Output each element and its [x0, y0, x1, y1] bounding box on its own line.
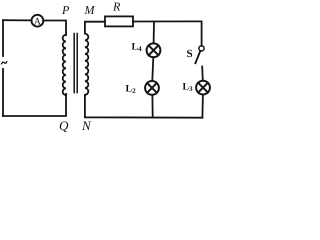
- wire top-left from source to ammeter: [3, 19, 32, 21]
- wire branch to lamp L4: [153, 22, 155, 44]
- wire L3 to bottom-right corner: [201, 95, 204, 118]
- resistor R: [105, 16, 133, 26]
- transformer primary winding (P-Q): [63, 35, 66, 95]
- bottom wire node N to bottom-right corner: [85, 95, 202, 118]
- wire left edge upper segment: [2, 20, 4, 56]
- transformer core: [74, 34, 77, 93]
- lamp L4: [147, 43, 161, 57]
- transformer secondary winding (M-N): [85, 34, 88, 95]
- svg-text:M: M: [84, 3, 96, 17]
- wire resistor to top-right corner: [133, 20, 202, 22]
- lamp L2: [145, 81, 159, 95]
- svg-text:L4: L4: [132, 42, 143, 54]
- wire L4 to L2: [152, 57, 153, 81]
- lamp L3: [196, 81, 210, 95]
- ammeter A1: [32, 15, 44, 28]
- svg-text:A: A: [34, 16, 42, 27]
- wire L2 to bottom wire: [151, 95, 153, 118]
- svg-text:L2: L2: [126, 84, 137, 96]
- wire ammeter to primary top (node P): [43, 21, 66, 35]
- svg-text:N: N: [81, 118, 92, 133]
- wire secondary top (node M) to resistor: [85, 22, 105, 34]
- wire primary bottom to node Q: [3, 94, 66, 116]
- svg-text:P: P: [61, 3, 70, 17]
- wire switch to lamp L3: [201, 67, 204, 81]
- switch S blade (open): [195, 51, 200, 63]
- switch S pivot: [199, 46, 204, 51]
- svg-text:L3: L3: [183, 82, 194, 94]
- svg-text:Q: Q: [59, 118, 69, 133]
- wire left edge lower segment: [2, 69, 4, 116]
- wire top-right down to switch: [201, 21, 203, 45]
- AC source (tilde): [2, 62, 7, 64]
- svg-text:S: S: [187, 48, 193, 60]
- svg-text:R: R: [112, 0, 121, 14]
